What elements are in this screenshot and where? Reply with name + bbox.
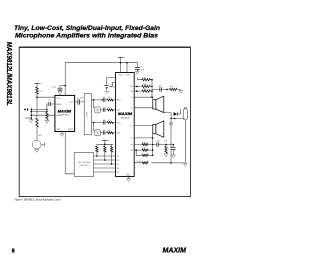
svg-text:8: 8 bbox=[12, 248, 15, 254]
svg-text:MAXIM: MAXIM bbox=[58, 110, 72, 114]
svg-text:O+: O+ bbox=[130, 97, 132, 99]
svg-text:R5: R5 bbox=[108, 120, 110, 122]
svg-text:MAXIM: MAXIM bbox=[163, 248, 187, 255]
svg-text:150k: 150k bbox=[142, 84, 146, 86]
svg-text:150k: 150k bbox=[142, 77, 146, 79]
svg-text:10k: 10k bbox=[142, 148, 145, 150]
svg-text:C7: C7 bbox=[103, 130, 105, 132]
svg-text:IN2-: IN2- bbox=[117, 133, 121, 135]
svg-text:47k: 47k bbox=[164, 140, 167, 142]
svg-text:R3: R3 bbox=[108, 97, 110, 99]
svg-text:Microphone Amplifiers with Int: Microphone Amplifiers with Integrated Bi… bbox=[15, 32, 159, 39]
svg-text:MAX9812L/MAX9813L: MAX9812L/MAX9813L bbox=[5, 42, 14, 106]
svg-text:C1: C1 bbox=[48, 100, 50, 102]
svg-text:10k: 10k bbox=[143, 89, 146, 91]
svg-text:C5: C5 bbox=[141, 67, 143, 69]
svg-text:GND: GND bbox=[126, 175, 131, 177]
svg-text:0.1µF: 0.1µF bbox=[137, 161, 143, 163]
svg-text:MAXIM: MAXIM bbox=[118, 112, 132, 116]
svg-text:0.1µF: 0.1µF bbox=[52, 86, 58, 88]
svg-text:JACK: JACK bbox=[85, 112, 88, 118]
svg-text:SHDN: SHDN bbox=[68, 129, 74, 131]
svg-text:C3: C3 bbox=[103, 97, 105, 99]
svg-text:MICIN: MICIN bbox=[57, 104, 63, 106]
svg-text:F2: F2 bbox=[131, 150, 133, 152]
svg-text:Tiny, Low-Cost, Single/Dual-In: Tiny, Low-Cost, Single/Dual-Input, Fixed… bbox=[14, 25, 160, 32]
svg-text:47k: 47k bbox=[170, 86, 173, 88]
svg-text:O+: O+ bbox=[130, 125, 132, 127]
svg-text:S1: S1 bbox=[117, 156, 119, 158]
svg-text:Figure 6. MAX9813L Typical App: Figure 6. MAX9813L Typical Application C… bbox=[15, 197, 61, 201]
svg-text:C6: C6 bbox=[103, 120, 105, 122]
svg-text:B1: B1 bbox=[131, 86, 133, 88]
svg-text:CELL PHONE: CELL PHONE bbox=[78, 162, 91, 164]
svg-text:S3: S3 bbox=[117, 164, 119, 166]
svg-text:S4: S4 bbox=[117, 168, 119, 170]
svg-text:2.2k: 2.2k bbox=[39, 90, 43, 92]
svg-text:R6: R6 bbox=[108, 130, 110, 132]
svg-text:C2 1µF: C2 1µF bbox=[77, 98, 84, 100]
svg-text:10k: 10k bbox=[142, 142, 145, 144]
svg-text:C4: C4 bbox=[103, 107, 105, 109]
svg-text:R4: R4 bbox=[108, 107, 110, 109]
svg-text:S2: S2 bbox=[117, 160, 119, 162]
svg-text:IN1+: IN1+ bbox=[117, 100, 121, 102]
svg-text:B2: B2 bbox=[131, 91, 133, 93]
svg-text:MAX9812L: MAX9812L bbox=[60, 113, 69, 116]
svg-text:GND: GND bbox=[57, 129, 62, 131]
svg-text:S5: S5 bbox=[117, 172, 119, 174]
svg-text:F1: F1 bbox=[131, 144, 133, 146]
svg-text:IN2+: IN2+ bbox=[117, 122, 121, 124]
svg-text:CIRCUITS: CIRCUITS bbox=[79, 165, 89, 167]
svg-text:MAX9813L: MAX9813L bbox=[121, 116, 130, 119]
